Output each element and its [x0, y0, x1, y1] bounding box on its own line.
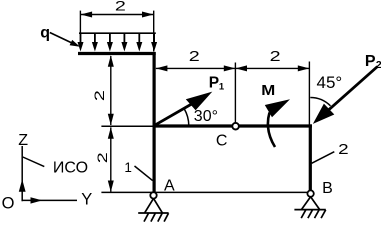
- label 2 leader for right column: [312, 152, 335, 164]
- 30 degree arc: [184, 109, 189, 126]
- upper-left vertical dimension "2": [108, 55, 114, 125]
- svg-text:2: 2: [270, 49, 281, 65]
- svg-text:2: 2: [376, 59, 381, 71]
- right column member: [309, 124, 312, 190]
- support A triangle: [145, 198, 163, 213]
- svg-text:2: 2: [94, 152, 110, 163]
- top cantilever beam: [78, 52, 156, 55]
- support B triangle: [302, 197, 320, 210]
- ISO leader line: [23, 157, 45, 167]
- horizontal dimension line left segment "2": [156, 65, 236, 71]
- hinge C circle: [232, 123, 239, 130]
- svg-text:2: 2: [338, 141, 349, 158]
- support A hatch strokes: [144, 213, 169, 221]
- force P2 arrow: [329, 67, 378, 110]
- force P1 arrow: [155, 102, 196, 126]
- svg-text:O: O: [2, 195, 15, 213]
- support A hatch base line: [138, 212, 168, 214]
- svg-text:45°: 45°: [317, 73, 343, 92]
- main horizontal beam: [153, 124, 312, 127]
- svg-text:2: 2: [91, 90, 107, 101]
- coordinate axis Y line: [22, 199, 78, 201]
- svg-text:2: 2: [115, 0, 126, 14]
- svg-text:P: P: [209, 75, 219, 92]
- svg-text:Y: Y: [81, 191, 92, 209]
- left column member: [153, 52, 156, 192]
- svg-text:B: B: [322, 180, 333, 197]
- middle extension tick down to C: [234, 63, 236, 123]
- moment M arc: [268, 113, 275, 148]
- distributed load q: top line: [79, 32, 156, 34]
- svg-text:Z: Z: [18, 132, 28, 149]
- label 1 leader for left column: [135, 166, 153, 181]
- svg-text:1: 1: [124, 160, 132, 175]
- svg-text:2: 2: [189, 49, 200, 65]
- support B hatch base line: [294, 209, 325, 211]
- coordinate axis Z line: [21, 146, 23, 201]
- svg-text:1: 1: [219, 82, 225, 93]
- pin support A circle: [150, 192, 156, 198]
- svg-text:ИСО: ИСО: [53, 159, 88, 176]
- lower-left vertical dimension "2": [108, 127, 114, 192]
- svg-text:A: A: [164, 178, 175, 195]
- distributed load q: arrows: [78, 34, 158, 52]
- pin support B circle: [307, 190, 313, 196]
- horizontal dimension line right segment "2": [235, 65, 309, 71]
- Z axis arrowhead: [19, 179, 26, 192]
- q leader line with arrow: [50, 33, 73, 44]
- Y axis arrowhead: [31, 197, 43, 203]
- ground line A to B: [101, 191, 307, 193]
- right extension line down to corner (45 deg reference): [308, 62, 310, 127]
- extension tick at main beam level: [101, 125, 152, 127]
- svg-text:30°: 30°: [194, 108, 218, 125]
- svg-text:C: C: [216, 132, 228, 149]
- top dimension line "2" over cantilever: [80, 11, 153, 52]
- svg-text:P: P: [365, 53, 376, 70]
- 45 degree arc: [310, 98, 330, 106]
- svg-text:M: M: [261, 82, 275, 99]
- support B hatch strokes: [301, 210, 326, 218]
- svg-text:q: q: [40, 24, 50, 41]
